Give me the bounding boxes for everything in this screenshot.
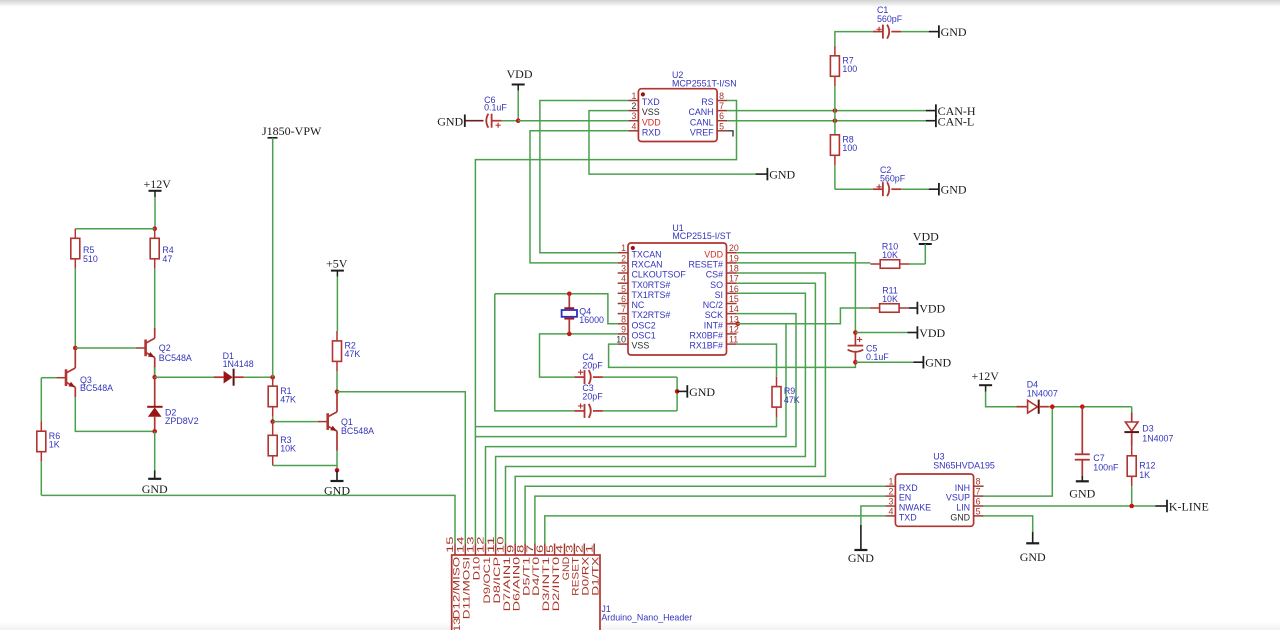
svg-text:D6/AIN0: D6/AIN0	[512, 557, 522, 612]
wire OSC2 loop to crystal top	[495, 294, 618, 324]
svg-text:12: 12	[476, 536, 486, 553]
svg-text:VDD: VDD	[704, 249, 723, 259]
J1 pin 1 D1/TX	[584, 544, 600, 596]
U1 pin 7 TX2RTS#	[618, 304, 671, 320]
svg-text:0.1uF: 0.1uF	[866, 352, 889, 362]
IC U1 MCP2515-I/ST	[628, 223, 732, 355]
svg-text:D1/TX: D1/TX	[591, 557, 601, 596]
wire R7 top to C1	[835, 32, 873, 46]
diode D2 ZPD8V2 zener	[147, 377, 198, 431]
wire U1 VDD pin20 to C5 top	[737, 253, 856, 333]
J1 pin 10 D7/AIN1	[496, 536, 512, 611]
resistor R7	[830, 46, 857, 86]
J1 pin 3 RESET	[565, 544, 581, 596]
svg-text:D5/T1: D5/T1	[521, 557, 531, 596]
svg-text:D4/T0: D4/T0	[531, 557, 541, 596]
net label VDD (at C5)	[907, 326, 945, 340]
J1 pin 5 D2/INT0	[545, 544, 561, 612]
U1 pin 1 TXCAN	[618, 243, 662, 259]
resistor R8	[830, 134, 857, 189]
svg-text:TXD: TXD	[899, 513, 917, 523]
svg-text:2: 2	[621, 253, 626, 263]
transistor Q1 BC548A	[318, 392, 374, 451]
U1 pin 8 OSC2	[618, 314, 656, 330]
svg-text:GND: GND	[848, 551, 874, 565]
wire junction to U2 VDD pin	[518, 120, 628, 122]
J1 pin 15 D12/MISO	[445, 536, 461, 619]
ground symbol below U3 right	[1020, 532, 1046, 564]
svg-text:20pF: 20pF	[582, 392, 603, 402]
node junction crystal bottom	[567, 332, 572, 337]
svg-text:8: 8	[976, 477, 981, 487]
wire D2 junction to ground	[154, 431, 156, 470]
wire U1 SCK pin14 to header pin 12	[486, 314, 797, 544]
wire INT# branch down to header pin 13 line	[475, 324, 786, 437]
svg-text:10: 10	[616, 335, 626, 345]
resistor R2	[333, 331, 361, 371]
svg-text:SN65HVDA195: SN65HVDA195	[933, 461, 995, 471]
svg-text:560pF: 560pF	[880, 174, 906, 184]
resistor R10 10K	[870, 241, 925, 268]
wire R5 down to Q3 collector junction	[74, 269, 76, 348]
U1 pin 15 NC/2	[703, 294, 739, 310]
svg-text:INT#: INT#	[704, 320, 723, 330]
U1 pin 12 RX0BF#	[689, 324, 738, 340]
svg-text:7: 7	[525, 545, 535, 553]
svg-text:RX0BF#: RX0BF#	[689, 331, 723, 341]
svg-text:1N4007: 1N4007	[1027, 389, 1058, 399]
wire +12V to junction	[154, 197, 156, 229]
wire U3 GND pin5 to ground	[984, 516, 1033, 532]
svg-text:TX0RTS#: TX0RTS#	[632, 280, 671, 290]
node junction Q2 emitter / D1 / D2	[152, 375, 157, 380]
svg-text:NC: NC	[632, 300, 645, 310]
svg-text:1K: 1K	[49, 439, 60, 449]
U3 pin 3 NWAKE	[885, 497, 931, 513]
svg-text:2: 2	[575, 545, 585, 553]
U3 pin 5 GND	[950, 506, 983, 522]
wire U1 CS# pin18 to header pin 9	[515, 273, 825, 544]
svg-text:CAN-L: CAN-L	[938, 114, 975, 128]
svg-text:6: 6	[976, 497, 981, 507]
node junction C4/C3 GND	[675, 389, 680, 394]
U1 pin 9 OSC1	[618, 324, 656, 340]
svg-text:RX1BF#: RX1BF#	[689, 341, 723, 351]
wire U2 TXD to U1 TXCAN	[540, 101, 629, 253]
svg-text:RXD: RXD	[642, 127, 661, 137]
svg-text:10: 10	[496, 536, 506, 553]
svg-text:TXCAN: TXCAN	[632, 249, 662, 259]
resistor R9 47K	[772, 377, 800, 417]
net label K-LINE	[1155, 499, 1209, 513]
resistor R6	[37, 421, 60, 461]
power symbol +5V	[326, 256, 348, 276]
net label J1850-VPW	[262, 124, 322, 138]
U3 pin 8 INH	[955, 477, 984, 493]
wire R2 to Q1 collector junction	[336, 371, 338, 391]
U3 pin 7 VSUP	[946, 487, 984, 503]
node junction Q3 collector / Q2 base	[73, 346, 78, 351]
wire U2 RXD to U1 RXCAN	[530, 131, 628, 263]
net label GND (at C5)	[913, 356, 951, 370]
svg-text:10K: 10K	[882, 294, 898, 304]
svg-text:RS: RS	[701, 97, 713, 107]
net label GND (crystal caps)	[677, 385, 715, 399]
U2 pin 4 RXD	[628, 121, 660, 137]
svg-text:15: 15	[445, 536, 455, 553]
wire U3 EN to header pin 7	[535, 496, 885, 543]
U2 pin 2 VSS	[628, 101, 659, 117]
J1 pin 9 D6/AIN0	[505, 544, 521, 612]
svg-text:GND: GND	[142, 482, 168, 496]
svg-text:3: 3	[621, 264, 626, 274]
wire crystal left loop down to C3	[495, 294, 575, 411]
wire Q2 emitter to junction	[154, 368, 156, 378]
svg-text:TX1RTS#: TX1RTS#	[632, 290, 671, 300]
wire down to D3	[1131, 407, 1133, 413]
svg-text:3: 3	[888, 497, 893, 507]
svg-text:16: 16	[729, 284, 739, 294]
power symbol +12V (left)	[144, 177, 172, 197]
wire U1 INT# pin13 to R11	[737, 308, 870, 324]
svg-text:TXD: TXD	[642, 97, 660, 107]
U2 pin 1 TXD	[628, 91, 659, 107]
svg-text:510: 510	[83, 254, 98, 264]
svg-text:TX2RTS#: TX2RTS#	[632, 310, 671, 320]
svg-text:18: 18	[729, 264, 739, 274]
U1 pin 11 RX1BF#	[689, 335, 738, 351]
J1 pin 11 D8/ICP	[486, 536, 502, 603]
J1 pin 14 D11/MOSI	[456, 536, 472, 619]
svg-text:47K: 47K	[784, 395, 800, 405]
svg-text:19: 19	[729, 253, 739, 263]
U2 pin 5 VREF	[690, 121, 727, 137]
svg-text:9: 9	[505, 545, 515, 553]
wire junction to Q2 base	[75, 347, 136, 349]
wire C5 top to VDD label	[855, 332, 907, 334]
svg-text:Q2: Q2	[159, 343, 171, 353]
node junction D1 / J1850 / R1	[270, 375, 275, 380]
node junction CANL / R8	[833, 118, 838, 123]
node junction C7 top	[1080, 404, 1085, 409]
svg-text:5: 5	[976, 506, 981, 516]
svg-text:BC548A: BC548A	[341, 426, 374, 436]
wire left rail down to R6	[40, 378, 42, 422]
svg-text:14: 14	[456, 536, 466, 553]
U1 pin 14 SCK	[705, 304, 739, 320]
U1 pin 19 RESET#	[688, 253, 738, 269]
wire R9 bottom to header pin 13 line	[475, 417, 776, 427]
svg-text:4: 4	[621, 274, 626, 284]
capacitor C3 20pF	[574, 383, 677, 418]
node junction K-LINE / R12	[1129, 504, 1134, 509]
svg-text:5: 5	[545, 545, 555, 553]
svg-text:GND: GND	[1020, 550, 1046, 564]
node junction D4 / VSUP	[1050, 404, 1055, 409]
svg-text:D12/MISO: D12/MISO	[451, 557, 461, 619]
svg-text:2: 2	[888, 487, 893, 497]
wire U2 CANL to CAN-L label	[727, 120, 926, 122]
svg-text:D3/INT1: D3/INT1	[541, 557, 551, 612]
resistor R12 1K	[1127, 446, 1155, 506]
wire R7 bottom to CANH junction	[834, 86, 836, 110]
U3 pin 1 RXD	[885, 477, 917, 493]
svg-text:INH: INH	[955, 483, 970, 493]
svg-text:10K: 10K	[280, 443, 296, 453]
svg-text:1: 1	[621, 243, 626, 253]
svg-text:16000: 16000	[579, 315, 604, 325]
svg-text:MCP2551T-I/SN: MCP2551T-I/SN	[672, 79, 737, 89]
wire U3 LIN to K-LINE	[984, 505, 1156, 507]
svg-text:NWAKE: NWAKE	[899, 503, 931, 513]
svg-text:4: 4	[631, 121, 636, 131]
node junction R1 / R3 / Q1 base	[270, 419, 275, 424]
svg-text:D10: D10	[472, 557, 482, 580]
node junction CANH / R7	[833, 108, 838, 113]
J1 pin 12 D9/OC1	[476, 536, 492, 603]
wire OSC1 to crystal bottom row	[540, 334, 618, 377]
capacitor C6 0.1uF	[484, 95, 518, 128]
resistor R1	[268, 377, 296, 417]
svg-text:7: 7	[621, 304, 626, 314]
svg-text:560pF: 560pF	[877, 14, 903, 24]
power symbol VDD (above C6)	[507, 67, 533, 91]
svg-text:CLKOUTSOF: CLKOUTSOF	[632, 270, 687, 280]
wire U2 CANH to CAN-H label	[727, 110, 926, 112]
crystal Q4 16000	[562, 294, 604, 334]
wire U1 SO pin17 to header pin 10	[506, 283, 816, 543]
svg-text:VSS: VSS	[642, 107, 660, 117]
svg-text:6: 6	[535, 545, 545, 553]
J1 pin 4 GND	[555, 544, 571, 581]
wire J1850-VPW down to junction	[272, 138, 274, 377]
svg-text:7: 7	[719, 101, 724, 111]
svg-text:100: 100	[842, 143, 857, 153]
wire Q3 base to left rail	[41, 377, 56, 379]
U2 pin 8 RS	[701, 91, 727, 107]
svg-text:LIN: LIN	[956, 503, 970, 513]
IC U2 MCP2551T-I/SN	[638, 70, 736, 141]
wire R1 to R3 junction	[272, 417, 274, 422]
svg-text:100nF: 100nF	[1093, 462, 1119, 472]
wire +5V to R2	[336, 277, 338, 332]
svg-text:1: 1	[584, 545, 594, 553]
svg-text:8: 8	[621, 314, 626, 324]
J1 pin 7 D4/T0	[525, 544, 541, 596]
svg-text:D11/MOSI: D11/MOSI	[462, 557, 472, 619]
svg-text:10K: 10K	[882, 250, 898, 260]
svg-text:OSC1: OSC1	[632, 331, 656, 341]
svg-text:20: 20	[729, 243, 739, 253]
wire D1 to R1 junction	[263, 376, 273, 378]
svg-text:1: 1	[888, 477, 893, 487]
svg-text:11: 11	[729, 335, 738, 345]
svg-text:0.1uF: 0.1uF	[484, 103, 507, 113]
capacitor C1 560pF	[873, 5, 929, 38]
node junction crystal top	[567, 292, 572, 297]
node junction D2 anode / Q3 emitter / GND	[152, 429, 157, 434]
svg-text:4: 4	[555, 545, 565, 553]
svg-text:8: 8	[515, 545, 525, 553]
wire U2 RS loop down to header pin 13 column	[475, 101, 736, 544]
wire C4/C3 right side vertical	[676, 377, 678, 411]
svg-text:VDD: VDD	[913, 230, 939, 244]
svg-text:RXD: RXD	[899, 483, 918, 493]
node junction R5/R4/+12V	[152, 227, 157, 232]
diode D3 1N4007	[1124, 413, 1173, 446]
svg-text:5: 5	[719, 121, 724, 131]
net label GND (at C2)	[929, 183, 967, 197]
svg-text:9: 9	[621, 324, 626, 334]
resistor R3	[268, 422, 296, 466]
ground symbol under Q1	[324, 470, 350, 497]
svg-text:D2/INT0: D2/INT0	[551, 557, 561, 612]
wire Q1 collector to header pin 14	[337, 392, 465, 544]
diode D4 1N4007	[1017, 379, 1058, 413]
U1 pin 17 SO	[710, 274, 739, 290]
resistor R5	[71, 229, 98, 269]
svg-text:CANL: CANL	[690, 117, 714, 127]
svg-text:BC548A: BC548A	[80, 383, 113, 393]
svg-text:GND: GND	[1069, 487, 1095, 501]
svg-text:47K: 47K	[345, 349, 361, 359]
svg-text:+12V: +12V	[144, 177, 172, 191]
net label GND (at C1)	[929, 25, 967, 39]
svg-text:1K: 1K	[1139, 470, 1150, 480]
wire U3 VSUP up to D4 junction	[984, 407, 1053, 496]
wire long bottom rail to header pin 15	[41, 495, 455, 543]
svg-text:GND: GND	[925, 356, 951, 370]
U2 pin 3 VDD	[628, 111, 660, 127]
svg-text:1: 1	[631, 91, 636, 101]
wire R6 to long bottom rail	[40, 462, 42, 496]
node junction C6 / VDD / U2 pin3	[516, 118, 521, 123]
U3 pin 2 EN	[885, 487, 911, 503]
U1 pin 3 CLKOUTSOF	[618, 264, 687, 280]
U1 pin 4 TX0RTS#	[618, 274, 671, 290]
J1 pin 13 D10	[466, 536, 482, 580]
svg-text:RXCAN: RXCAN	[632, 260, 663, 270]
net label VDD (at R11)	[909, 301, 946, 315]
transistor Q2 BC548A	[136, 328, 192, 377]
svg-text:GND: GND	[941, 25, 967, 39]
node junction C5 top / VDD	[853, 330, 858, 335]
node junction C5 bottom / VSS / GND	[853, 360, 858, 365]
svg-text:GND: GND	[941, 183, 967, 197]
svg-text:14: 14	[729, 304, 739, 314]
wire U1 RX1BF# pin11 to R9	[737, 344, 777, 377]
svg-text:6: 6	[621, 294, 626, 304]
U1 pin 20 VDD	[704, 243, 739, 259]
net label GND (left of C6)	[437, 114, 483, 128]
svg-text:J1850-VPW: J1850-VPW	[262, 124, 322, 138]
svg-text:GND: GND	[769, 168, 795, 182]
svg-text:VDD: VDD	[642, 117, 661, 127]
capacitor C7 100nF	[1075, 407, 1119, 476]
svg-text:8: 8	[719, 91, 724, 101]
svg-text:BC548A: BC548A	[159, 353, 192, 363]
resistor R11 10K	[870, 285, 909, 312]
svg-text:GND: GND	[437, 115, 463, 129]
svg-text:SCK: SCK	[705, 310, 723, 320]
svg-text:D3: D3	[1142, 423, 1153, 433]
J1 pin 8 D5/T1	[515, 544, 531, 596]
U1 pin 2 RXCAN	[618, 253, 663, 269]
ground symbol under C7	[1069, 476, 1095, 501]
svg-text:ZPD8V2: ZPD8V2	[165, 416, 199, 426]
svg-text:13: 13	[466, 536, 476, 553]
U1 pin 13 INT#	[704, 314, 739, 330]
transistor Q3 BC548A	[56, 348, 113, 397]
svg-text:47: 47	[162, 254, 172, 264]
svg-text:4: 4	[888, 506, 893, 516]
svg-text:K-LINE: K-LINE	[1169, 499, 1209, 513]
svg-text:1N4148: 1N4148	[223, 359, 254, 369]
svg-text:D0/RX: D0/RX	[581, 557, 591, 596]
svg-text:C7: C7	[1093, 453, 1104, 463]
U1 pin 10 VSS	[616, 335, 649, 351]
U2 pin 6 CANL	[690, 111, 727, 127]
wire R3 to Q1 emitter	[273, 465, 337, 467]
net label GND (below U2)	[756, 168, 796, 182]
svg-text:MCP2515-I/ST: MCP2515-I/ST	[672, 231, 731, 241]
U1 pin 16 SI	[715, 284, 739, 300]
power symbol +12V (right)	[972, 369, 1000, 392]
node junction R2 / Q1 collector	[335, 390, 340, 395]
svg-text:VREF: VREF	[690, 127, 714, 137]
svg-text:VSS: VSS	[632, 341, 650, 351]
svg-text:+5V: +5V	[326, 256, 348, 270]
svg-text:20pF: 20pF	[582, 361, 603, 371]
J1 pin 2 D0/RX	[575, 544, 591, 596]
wire R4 to Q2 collector	[154, 269, 156, 328]
U1 pin 18 CS#	[706, 264, 739, 280]
svg-text:CS#: CS#	[706, 270, 723, 280]
U2 pin 7 CANH	[688, 101, 727, 117]
svg-text:VDD: VDD	[919, 326, 945, 340]
U1 pin 5 TX1RTS#	[618, 284, 671, 300]
svg-text:15: 15	[729, 294, 739, 304]
U3 pin 4 TXD	[885, 506, 916, 522]
svg-text:VDD: VDD	[919, 301, 945, 315]
wire U2 VSS to GND label	[589, 111, 756, 175]
U3 pin 6 LIN	[956, 497, 983, 513]
svg-text:SI: SI	[715, 290, 723, 300]
wire U1 RESET# pin19 to R10	[737, 262, 871, 264]
capacitor C2 560pF	[873, 165, 929, 196]
wire U3 RXD to header pin 8	[525, 486, 885, 543]
power symbol VDD (at R10)	[913, 230, 939, 264]
svg-text:CANH: CANH	[688, 107, 713, 117]
ground symbol below U3 left	[848, 525, 874, 565]
svg-text:2: 2	[631, 101, 636, 111]
capacitor C5 0.1uF	[848, 333, 890, 363]
net label CAN-H	[926, 104, 976, 118]
svg-text:NC/2: NC/2	[703, 300, 723, 310]
wire U3 TXD to header pin 6	[545, 516, 885, 544]
wire U1 SI pin16 to header pin 11	[496, 293, 806, 543]
wire R8 bottom to C2	[835, 188, 873, 190]
svg-text:100: 100	[842, 64, 857, 74]
svg-text:17: 17	[729, 274, 739, 284]
svg-text:6: 6	[719, 111, 724, 121]
svg-text:3: 3	[565, 545, 575, 553]
diode D1 1N4148	[155, 351, 263, 386]
IC U3 SN65HVDA195	[895, 452, 995, 527]
svg-text:Arduino_Nano_Header: Arduino_Nano_Header	[601, 612, 692, 622]
wire D4 to junctions and D3	[1049, 406, 1132, 408]
svg-text:OSC2: OSC2	[632, 320, 656, 330]
